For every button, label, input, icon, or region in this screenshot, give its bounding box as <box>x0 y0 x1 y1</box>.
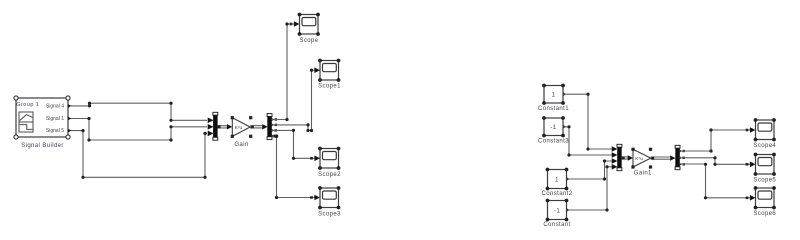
svg-text:Scope3: Scope3 <box>318 211 341 217</box>
svg-text:Signal Builder: Signal Builder <box>21 143 64 149</box>
block Constant <box>543 199 570 228</box>
wire Signal1 to Mux input2 <box>68 117 214 142</box>
scope block Scope4 <box>753 118 776 149</box>
wire Demux1 out1 to Scope4 <box>679 127 755 152</box>
svg-text:Scope1: Scope1 <box>318 84 341 90</box>
svg-text:-1: -1 <box>554 209 560 215</box>
gain block Gain1 <box>631 148 652 177</box>
wire Gain1 to Demux1 (vector double line) <box>651 155 676 160</box>
svg-text:Signal 5: Signal 5 <box>46 128 64 134</box>
svg-text:Gain1: Gain1 <box>634 170 652 176</box>
svg-text:Constant1: Constant1 <box>538 106 569 112</box>
block Constant2 <box>542 168 573 197</box>
wire Mux1 to Gain1 (vector double line) <box>622 155 633 160</box>
wire Mux to Gain (vector double line) <box>218 124 233 129</box>
svg-text:1: 1 <box>555 178 559 184</box>
mux Mux1 <box>617 144 622 170</box>
block Signal Builder <box>14 96 70 149</box>
wire Constant2 to Mux1 input3 <box>567 158 618 181</box>
svg-text:Scope4: Scope4 <box>753 143 776 149</box>
wire Demux1 out2 to Scope5 <box>679 156 755 167</box>
svg-text:K*u: K*u <box>235 125 243 131</box>
scope block Scope2 <box>318 147 341 179</box>
svg-text:Gain: Gain <box>234 142 248 148</box>
svg-text:Signal 4: Signal 4 <box>46 104 64 110</box>
wire Constant to Mux1 input4 <box>567 164 618 212</box>
svg-text:K*u: K*u <box>635 156 643 162</box>
scope block Scope <box>298 13 320 44</box>
svg-text:Scope2: Scope2 <box>318 172 341 178</box>
svg-text:Constant2: Constant2 <box>542 191 573 197</box>
svg-text:Group 1: Group 1 <box>16 102 39 108</box>
scope block Scope3 <box>318 186 341 217</box>
svg-text:Scope6: Scope6 <box>753 211 776 217</box>
wire Signal5 to Mux input3 <box>68 129 214 179</box>
wire Demux out1 to Scope <box>271 21 299 121</box>
demux Demux <box>267 114 272 140</box>
gain block Gain <box>231 116 253 148</box>
wire Demux out2 to Scope1 <box>271 67 320 132</box>
svg-text:Scope5: Scope5 <box>753 177 776 183</box>
block Constant3 <box>538 116 569 144</box>
svg-text:1: 1 <box>552 93 556 99</box>
demux Demux1 <box>675 145 680 169</box>
scope block Scope5 <box>753 153 776 184</box>
wire Gain to Demux (vector double line) <box>250 124 267 129</box>
wire Demux out4 to Scope3 <box>271 134 320 200</box>
block Constant1 <box>538 84 569 112</box>
svg-text:Constant3: Constant3 <box>538 139 569 145</box>
svg-text:Signal 1: Signal 1 <box>46 116 64 122</box>
scope block Scope6 <box>753 186 776 217</box>
svg-text:-1: -1 <box>550 125 556 131</box>
wire Signal4 to Mux input1 <box>68 102 214 124</box>
svg-text:Constant: Constant <box>543 222 570 228</box>
mux Mux <box>213 112 218 140</box>
wire Demux1 out3 to Scope6 <box>679 163 755 201</box>
wire Constant1 to Mux1 input1 <box>563 92 618 151</box>
scope block Scope1 <box>318 59 341 90</box>
svg-text:Scope: Scope <box>299 38 318 44</box>
wire Constant3 to Mux1 input2 <box>563 125 618 158</box>
wire Demux out3 to Scope2 <box>271 129 320 161</box>
